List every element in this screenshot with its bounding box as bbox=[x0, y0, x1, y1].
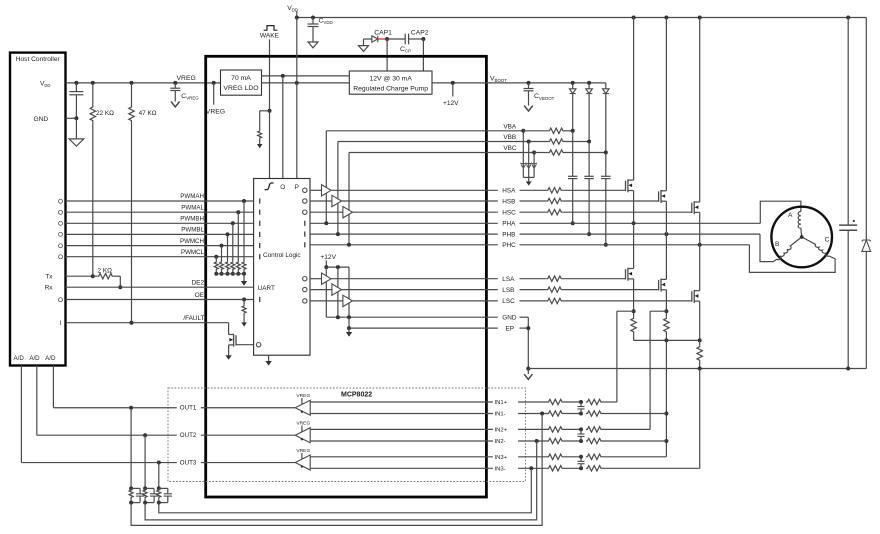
resistor R-LSB bbox=[546, 287, 563, 292]
wire IN2+ row bbox=[310, 428, 493, 430]
svg-text:LSA: LSA bbox=[502, 276, 515, 283]
wire PHA inside bbox=[310, 222, 498, 224]
transistor Q-CL (phase C low) bbox=[691, 291, 693, 301]
wire PHB ext bbox=[520, 233, 761, 235]
svg-text:VREG: VREG bbox=[296, 393, 310, 399]
ground PWM bank bbox=[243, 274, 245, 281]
svg-text:EP: EP bbox=[506, 325, 515, 332]
svg-text:A/D: A/D bbox=[45, 355, 56, 362]
MCP8022 chip outline bbox=[206, 56, 487, 497]
wire HSC out bbox=[353, 211, 498, 213]
resistor R-senseB bbox=[665, 311, 667, 317]
resistor 22 Kohm bbox=[91, 81, 95, 85]
resistor R-IN3+ a bbox=[547, 454, 564, 459]
svg-text:12V @ 30 mA: 12V @ 30 mA bbox=[369, 76, 412, 83]
OE pull-down resistor bbox=[242, 298, 246, 302]
wire LS supply verticals bbox=[325, 267, 327, 317]
wire diode to CAP1 (red segment) bbox=[378, 38, 387, 40]
resistor R-shunt bbox=[699, 340, 701, 345]
wake pull-down resistor bbox=[268, 109, 272, 113]
wire P-pin vertical (VDD) bbox=[296, 18, 298, 179]
wire IN2+ sense vertical bbox=[649, 311, 651, 429]
wire PHA ext bbox=[520, 222, 761, 224]
svg-text:PWMBL: PWMBL bbox=[181, 227, 204, 234]
svg-text:VREG: VREG bbox=[296, 421, 310, 427]
resistor R-IN2+ a bbox=[547, 427, 564, 432]
driver U-LSA bbox=[322, 273, 332, 284]
resistor R-IN2- b bbox=[586, 438, 603, 443]
wire IN2- to common bbox=[603, 440, 667, 442]
control pin I (PWM row 1) bbox=[259, 198, 261, 203]
svg-text:IN1-: IN1- bbox=[495, 412, 506, 418]
ground CVREG bbox=[171, 102, 180, 107]
svg-text:O: O bbox=[280, 184, 285, 191]
wire PWMAH row bbox=[66, 200, 254, 202]
wire shunt kelvin to IN3- bbox=[699, 369, 701, 469]
regulator block 70mA VREG LDO bbox=[221, 70, 262, 95]
wire IN2+ to phase B sense bbox=[603, 428, 651, 430]
svg-text:O: O bbox=[58, 297, 63, 304]
wire IN2- row bbox=[310, 440, 493, 442]
pin edge-symbol (wake) bbox=[265, 183, 274, 190]
svg-text:+12V: +12V bbox=[443, 100, 459, 107]
svg-text:CAP1: CAP1 bbox=[374, 30, 392, 37]
wire VBB vertical bbox=[337, 142, 339, 235]
capacitor CCP bbox=[387, 38, 405, 40]
resistor R-senseA bbox=[633, 311, 635, 317]
svg-text:OUT1: OUT1 bbox=[180, 405, 197, 412]
wire IN1+ sense vertical bbox=[616, 311, 618, 402]
resistor R-VBA bbox=[548, 128, 565, 133]
svg-text:PWMAH: PWMAH bbox=[180, 193, 204, 200]
wire OE row bbox=[66, 299, 254, 301]
svg-text:CAP2: CAP2 bbox=[411, 30, 429, 37]
wire IN1+ to phase A sense bbox=[603, 401, 617, 403]
svg-text:47 KΩ: 47 KΩ bbox=[139, 110, 157, 117]
wire LSA out bbox=[331, 278, 498, 280]
capacitor C-IN1 bbox=[580, 402, 582, 407]
wire IN3- to shunt kelvin bbox=[603, 467, 700, 469]
wire phase C to motor bbox=[749, 245, 835, 273]
wire PWMBL row bbox=[66, 233, 254, 235]
svg-text:VREG LDO: VREG LDO bbox=[223, 85, 258, 92]
wire common to IN- rows bbox=[665, 340, 667, 456]
transistor Q-CH (phase C high) bbox=[691, 203, 693, 213]
svg-text:GND: GND bbox=[34, 116, 49, 123]
svg-text:Host Controller: Host Controller bbox=[16, 56, 61, 63]
capacitor C-host (VDD bypass) bbox=[74, 81, 78, 85]
svg-text:LSB: LSB bbox=[502, 287, 514, 294]
wire host A/D 2 bbox=[36, 366, 38, 436]
ground host bbox=[75, 118, 77, 139]
svg-text:VBB: VBB bbox=[503, 134, 516, 141]
wire VBA ext bbox=[486, 130, 523, 132]
wire IN1+ row bbox=[310, 401, 493, 403]
motor winding A bbox=[798, 212, 802, 238]
wire VBB ext bbox=[486, 141, 528, 143]
wire PHC ext bbox=[520, 244, 750, 246]
svg-text:PWMCL: PWMCL bbox=[181, 249, 205, 256]
wire IN3+ to common bbox=[603, 456, 667, 458]
wire HSB from pin bbox=[310, 200, 332, 202]
control logic box bbox=[254, 179, 310, 356]
host controller box bbox=[10, 53, 66, 366]
wire VDD row to VREG pin bbox=[66, 82, 221, 84]
wire WAKE input bbox=[269, 39, 271, 178]
bootstrap capacitor CBC bbox=[601, 175, 610, 177]
svg-text:OUT3: OUT3 bbox=[180, 459, 197, 466]
svg-text:A: A bbox=[788, 212, 793, 219]
wire Rx / DE2 row bbox=[66, 286, 254, 288]
wire host A/D 1 bbox=[52, 366, 54, 408]
resistor R-IN1- a bbox=[547, 411, 564, 416]
transistor Q-AL (phase A low) bbox=[625, 269, 627, 279]
svg-text:PHC: PHC bbox=[502, 242, 516, 249]
wire HSA ext bbox=[520, 189, 547, 191]
control pin I (PWM row 3) bbox=[259, 221, 261, 226]
svg-text:Tx: Tx bbox=[45, 274, 53, 281]
wire OUT1 row bbox=[53, 407, 176, 409]
ground CVDD bbox=[308, 42, 318, 48]
wire pull-down common rail bbox=[216, 273, 244, 275]
zener diode (supply clamp) bbox=[865, 18, 867, 241]
svg-text:VREG: VREG bbox=[177, 75, 196, 82]
wire PWMAL row bbox=[66, 211, 254, 213]
svg-text:DE2: DE2 bbox=[192, 280, 205, 287]
control pin I (PWM row 6) bbox=[259, 254, 261, 259]
open-drain fault transistor Q1 bbox=[228, 323, 230, 335]
resistor R-LSC bbox=[546, 298, 563, 303]
wire LSB ext bbox=[520, 289, 547, 291]
resistor R-HSC bbox=[546, 210, 563, 215]
svg-text:HSC: HSC bbox=[502, 210, 516, 217]
svg-text:O: O bbox=[58, 254, 63, 261]
svg-text:IN3-: IN3- bbox=[495, 466, 506, 472]
control pin I (PWM row 2) bbox=[259, 210, 261, 215]
wire LSB from pin bbox=[310, 289, 332, 291]
control pin I (PWM row 5) bbox=[259, 243, 261, 248]
wire HSB ext bbox=[520, 200, 547, 202]
resistor R-VBB bbox=[548, 139, 565, 144]
node phase B sense bbox=[664, 309, 668, 313]
node +12V stub bbox=[451, 81, 455, 85]
svg-text:PHA: PHA bbox=[502, 221, 516, 228]
capacitor bulk (DC link) bbox=[846, 16, 850, 20]
ground EP internal bbox=[348, 328, 350, 332]
wire /FAULT row bbox=[66, 322, 229, 324]
wire EP ext bbox=[520, 327, 529, 329]
resistor 47 Kohm bbox=[130, 81, 134, 85]
wire IN3- row bbox=[310, 467, 493, 469]
svg-text:70 mA: 70 mA bbox=[231, 75, 251, 82]
resistor R-HSB bbox=[546, 198, 563, 203]
ground zener bank bbox=[528, 177, 530, 181]
ground EP node bbox=[527, 369, 529, 374]
svg-text:O: O bbox=[58, 232, 63, 239]
wire OUT2 row bbox=[37, 434, 177, 436]
svg-text:I: I bbox=[60, 320, 62, 327]
wire VBC ext bbox=[486, 152, 534, 154]
svg-text:A/D: A/D bbox=[14, 355, 25, 362]
svg-text:OE: OE bbox=[195, 292, 204, 299]
wire LDO lower row (VDD in) bbox=[262, 82, 350, 84]
wire VBC vertical bbox=[348, 153, 350, 245]
ground CVBOOT bbox=[524, 106, 533, 111]
wire feedback loop 2 bbox=[145, 441, 537, 520]
node IN3- loop tap bbox=[529, 466, 533, 470]
zener clamp bank on VBx bbox=[522, 131, 524, 164]
bootstrap diode C bbox=[605, 83, 607, 89]
resistor R-HSA bbox=[546, 188, 563, 193]
wake pulse symbol bbox=[264, 26, 278, 31]
wire PWMCH row bbox=[66, 245, 254, 247]
svg-text:IN2+: IN2+ bbox=[495, 427, 508, 433]
resistor R-IN1+ a bbox=[547, 399, 564, 404]
wire GND row internal bbox=[326, 316, 498, 318]
transistor Q-BL (phase B low) bbox=[658, 280, 660, 290]
capacitor CVREG bbox=[173, 81, 177, 85]
resistor R-IN3- b bbox=[586, 466, 603, 471]
svg-text:C: C bbox=[825, 237, 830, 244]
svg-text:O: O bbox=[58, 210, 63, 217]
wire VBA loop bbox=[326, 130, 486, 132]
wire LSC ext bbox=[520, 300, 547, 302]
control logic ground bbox=[268, 355, 270, 361]
wire LSC out bbox=[353, 300, 498, 302]
svg-text:UART: UART bbox=[258, 285, 275, 292]
svg-text:VREG: VREG bbox=[206, 108, 225, 115]
svg-text:IN2-: IN2- bbox=[495, 439, 506, 445]
svg-text:Regulated Charge Pump: Regulated Charge Pump bbox=[353, 86, 428, 93]
bootstrap capacitor CBB bbox=[584, 175, 593, 177]
ground for charge pump diode bbox=[359, 46, 369, 52]
driver U-HSC bbox=[343, 207, 353, 218]
wire HSA out bbox=[331, 189, 498, 191]
svg-text:22 KΩ: 22 KΩ bbox=[96, 110, 114, 117]
wire +12V rail bbox=[326, 266, 349, 268]
wire Tx row bbox=[66, 275, 93, 277]
resistor R-IN1+ b bbox=[586, 399, 603, 404]
svg-text:MCP8022: MCP8022 bbox=[341, 392, 372, 399]
svg-text:PWMBH: PWMBH bbox=[180, 216, 204, 223]
wire LDO upper row to pump bbox=[262, 75, 350, 77]
svg-text:PHB: PHB bbox=[502, 231, 515, 238]
svg-text:B: B bbox=[775, 241, 780, 248]
svg-text:HSB: HSB bbox=[502, 198, 515, 205]
capacitor C-IN2 bbox=[580, 429, 582, 434]
wire LSA from pin bbox=[310, 278, 322, 280]
svg-text:OUT2: OUT2 bbox=[180, 432, 197, 439]
control pins O LSA LSB LSC bbox=[303, 277, 307, 281]
resistor R-IN3- a bbox=[547, 466, 564, 471]
wire PHC inside bbox=[310, 244, 498, 246]
bootstrap capacitor CBA bbox=[568, 175, 577, 177]
resistor R-IN1- b bbox=[586, 411, 603, 416]
resistor R-LSA bbox=[546, 276, 563, 281]
wire LSA ext bbox=[520, 278, 547, 280]
op-amp A3 bbox=[295, 455, 310, 470]
resistor R-IN3+ b bbox=[586, 454, 603, 459]
diode D1 (charge pump) bbox=[372, 36, 378, 42]
node IN1- loop tap bbox=[540, 412, 544, 416]
wire PWMCL row bbox=[66, 256, 254, 258]
svg-text:PWMCH: PWMCH bbox=[180, 238, 204, 245]
wire VBC loop bbox=[349, 152, 486, 154]
svg-text:+12V: +12V bbox=[320, 254, 336, 261]
wire diode anode bbox=[364, 38, 372, 40]
motor winding B bbox=[774, 237, 802, 262]
wire HSA from pin bbox=[310, 189, 322, 191]
wire OUT3 row bbox=[21, 462, 176, 464]
svg-text:/FAULT: /FAULT bbox=[183, 315, 204, 322]
wire HSC ext bbox=[520, 211, 547, 213]
filter RC 3 bbox=[158, 463, 160, 489]
driver U-HSA bbox=[322, 185, 332, 196]
wire VBA vertical bbox=[325, 131, 327, 224]
wire phase A to motor bbox=[760, 201, 801, 223]
svg-text:PWMAL: PWMAL bbox=[181, 204, 204, 211]
control pins I PHA PHB PHC bbox=[304, 221, 306, 226]
control pin O (fault, bottom left) bbox=[256, 343, 260, 347]
filter RC 1 bbox=[130, 408, 132, 489]
wire host GND row bbox=[66, 117, 77, 119]
wire IN1- row bbox=[310, 413, 493, 415]
svg-text:O: O bbox=[58, 243, 63, 250]
filter RC 2 bbox=[144, 435, 146, 488]
svg-text:Control Logic: Control Logic bbox=[263, 252, 301, 259]
driver U-HSB bbox=[332, 195, 342, 206]
motor winding C bbox=[802, 237, 835, 259]
node IN2- loop tap bbox=[535, 439, 539, 443]
op-amp A1 bbox=[295, 400, 310, 415]
wire EP row internal bbox=[348, 317, 350, 328]
resistor R-IN2+ b bbox=[586, 427, 603, 432]
svg-text:GND: GND bbox=[502, 315, 517, 322]
svg-text:WAKE: WAKE bbox=[260, 33, 280, 40]
bootstrap diode A bbox=[571, 81, 575, 85]
dashed boundary of sense amplifier section bbox=[168, 388, 525, 482]
resistor R-VBC bbox=[548, 150, 565, 155]
op-amp A2 bbox=[295, 428, 310, 443]
wire O-pin vertical bbox=[282, 76, 284, 179]
wire charge pump out to VBOOT bbox=[432, 82, 606, 84]
motor M1 outline bbox=[771, 207, 832, 268]
svg-text:HSA: HSA bbox=[502, 188, 516, 195]
wire GND ext bbox=[520, 316, 529, 318]
wire IN3+ row bbox=[310, 456, 493, 458]
transistor Q-BH (phase B high) bbox=[658, 191, 660, 201]
node VREG stub into chip bbox=[212, 81, 216, 85]
node ground rail start bbox=[526, 367, 530, 371]
svg-text:O: O bbox=[58, 198, 63, 205]
node motor star point bbox=[800, 235, 804, 239]
capacitor CVDD bbox=[311, 16, 315, 20]
driver U-LSC bbox=[343, 295, 353, 306]
resistor R-IN2- a bbox=[547, 438, 564, 443]
svg-text:VBA: VBA bbox=[503, 123, 517, 130]
wire host A/D 3 bbox=[20, 366, 22, 463]
driver U-LSB bbox=[332, 284, 342, 295]
svg-text:IN1+: IN1+ bbox=[495, 400, 508, 406]
wire LSB out bbox=[342, 289, 498, 291]
svg-text:Rx: Rx bbox=[45, 285, 54, 292]
capacitor C-IN3 bbox=[580, 457, 582, 462]
wire PHB inside bbox=[310, 233, 498, 235]
control pins O HSA HSB HSC bbox=[303, 188, 307, 192]
svg-text:IN3+: IN3+ bbox=[495, 455, 508, 461]
wire HSC from pin bbox=[310, 211, 343, 213]
charge pump block bbox=[349, 71, 432, 94]
svg-text:A/D: A/D bbox=[29, 355, 40, 362]
transistor Q-AH (phase A high) bbox=[625, 181, 627, 191]
wire common sense node bbox=[634, 339, 700, 341]
control pin I (OE) bbox=[259, 297, 261, 302]
wire feedback loop 3 bbox=[159, 468, 532, 513]
wire ground rail bbox=[528, 368, 866, 370]
svg-text:O: O bbox=[58, 221, 63, 228]
wire IN1- to common bbox=[603, 413, 667, 415]
capacitor CVBOOT bbox=[527, 81, 531, 85]
wire LSC from pin bbox=[310, 300, 343, 302]
svg-text:LSC: LSC bbox=[502, 298, 515, 305]
wire feedback loop 1 bbox=[131, 414, 542, 526]
wire HSB out bbox=[342, 200, 498, 202]
wire +12V stub bbox=[325, 260, 327, 267]
wire PWMBH row bbox=[66, 222, 254, 224]
wire VBB loop bbox=[338, 141, 487, 143]
svg-text:VBC: VBC bbox=[503, 145, 517, 152]
wire VDD top rail bbox=[297, 17, 867, 19]
wire phase B to motor bbox=[760, 234, 774, 262]
node phase A sense bbox=[632, 309, 636, 313]
svg-text:VREG: VREG bbox=[296, 448, 310, 454]
control pin I (PWM row 4) bbox=[259, 232, 261, 237]
bootstrap diode B bbox=[587, 81, 591, 85]
PWM pull-down resistor bank bbox=[242, 199, 246, 203]
svg-text:P: P bbox=[295, 184, 299, 191]
